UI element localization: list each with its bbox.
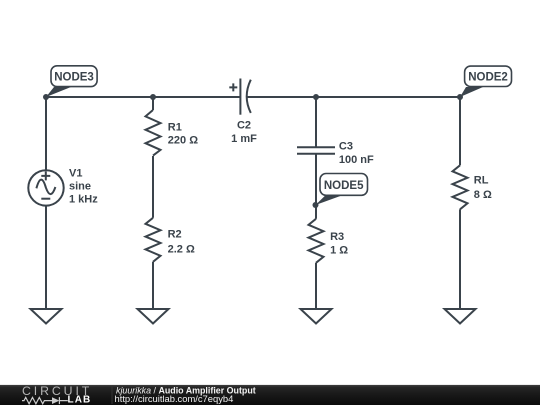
svg-text:C3: C3 [339,140,353,152]
svg-text:http://circuitlab.com/c7eqyb4: http://circuitlab.com/c7eqyb4 [115,393,234,404]
capacitor C2 right curved plate [247,80,251,113]
wire R2 bottom lead [152,262,154,309]
svg-text:V1: V1 [69,168,82,180]
NODE5 callout tail [316,196,342,205]
wire R1 to R2 [152,156,154,218]
ground for RL [445,309,476,324]
node junction dot NODE2 [457,94,463,100]
wire top horizontal right (C2 right plate to NODE2) [247,96,460,98]
CircuitLab logo diode triangle [52,397,59,404]
wire RL top lead [459,97,461,165]
svg-text:C2: C2 [237,120,251,132]
resistor R2 body [146,218,161,262]
wire RL bottom lead [459,209,461,309]
resistor R3 body [309,219,324,263]
wire C3 top lead [315,97,317,147]
C2 polarity plus [229,83,237,91]
capacitor C3 top plate [297,146,335,148]
ground for R2 [138,309,169,324]
NODE5 callout bubble [320,174,368,196]
capacitor C3 bottom plate [297,153,335,155]
junction dot C3 top [313,94,319,100]
voltage source V1 circle [28,170,63,205]
svg-text:100 nF: 100 nF [339,154,374,166]
svg-text:R2: R2 [168,229,182,241]
svg-text:NODE3: NODE3 [54,71,94,83]
node junction dot NODE5 [313,202,319,208]
V1 sine glyph [36,180,55,194]
svg-text:LAB: LAB [68,395,92,405]
NODE2 callout tail [460,87,483,97]
svg-text:NODE5: NODE5 [324,180,364,192]
wire R3 bottom lead [315,263,317,309]
CircuitLab logo resistor squiggle and diode [22,397,68,404]
svg-text:8 Ω: 8 Ω [474,189,492,201]
resistor R1 body [146,110,161,156]
svg-text:R3: R3 [330,231,344,243]
NODE2 callout bubble [465,66,512,86]
svg-text:1 kHz: 1 kHz [69,194,98,206]
junction dot R1 top [150,94,156,100]
svg-text:2.2 Ω: 2.2 Ω [168,243,195,255]
svg-text:220 Ω: 220 Ω [168,135,198,147]
resistor RL body [453,165,468,209]
wire C3 to R3 [315,154,317,219]
svg-text:R1: R1 [168,121,182,133]
footer black bar [0,385,540,405]
node junction dot NODE3 [43,94,49,100]
wire V1 top lead [45,97,47,170]
ground for V1 [31,309,62,324]
NODE3 callout tail [46,87,71,97]
V1 minus sign [41,198,50,200]
NODE3 callout bubble [51,66,97,87]
svg-text:1 mF: 1 mF [231,133,257,145]
wire top horizontal left (NODE3 to C2 left plate) [46,96,240,98]
capacitor C2 left plate [239,79,241,115]
svg-text:NODE2: NODE2 [468,72,508,84]
ground for R3 [301,309,332,324]
svg-text:1 Ω: 1 Ω [330,245,348,257]
svg-text:RL: RL [474,175,489,187]
footer divider line [111,386,113,404]
wire R1 top lead [152,97,154,110]
V1 plus sign [41,171,50,180]
svg-text:sine: sine [69,181,91,193]
wire V1 bottom lead [45,206,47,309]
